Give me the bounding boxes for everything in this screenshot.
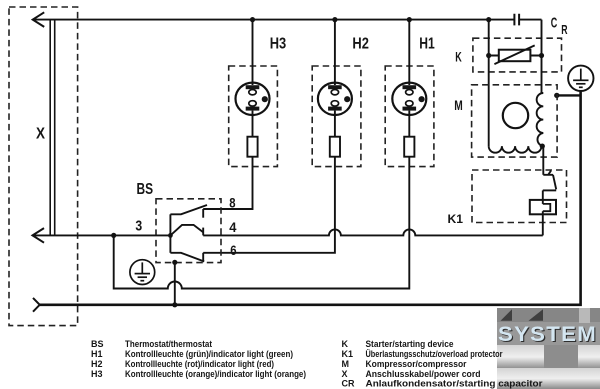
- svg-text:Kontrollleuchte (grün)/indicat: Kontrollleuchte (grün)/indicator light (…: [125, 349, 293, 359]
- svg-text:SYSTEM: SYSTEM: [498, 323, 597, 346]
- wire H1 down and left to live node with hop over earth branch: [114, 157, 410, 289]
- svg-text:Kontrollleuchte (rot)/indicato: Kontrollleuchte (rot)/indicator light (r…: [125, 359, 274, 369]
- resistor H3: [247, 137, 257, 157]
- legend M row: [342, 359, 467, 369]
- lamp H2: [318, 20, 352, 137]
- node dot starter left: [486, 53, 491, 58]
- label M: [454, 97, 463, 113]
- svg-text:M: M: [454, 97, 463, 113]
- label 8: [229, 196, 236, 211]
- svg-text:K1: K1: [448, 212, 464, 226]
- svg-text:4: 4: [229, 220, 237, 235]
- node junction dot H3 on rail: [250, 17, 255, 22]
- starter PTC element K: [494, 45, 534, 64]
- label K: [455, 49, 462, 65]
- svg-text:8: 8: [229, 196, 236, 211]
- wire winding junction down to overload: [542, 146, 544, 175]
- resistor H2: [330, 137, 340, 157]
- thermostat terminal 8 stub: [202, 209, 204, 218]
- legend H3 row: [91, 369, 306, 379]
- legend CR row: [342, 379, 544, 389]
- svg-text:Anschlusskabel/power cord: Anschlusskabel/power cord: [366, 369, 481, 379]
- wire 3 live input: [32, 234, 170, 236]
- thermostat BS blade to 6: [170, 253, 204, 262]
- node dot on motor frame: [554, 93, 559, 98]
- svg-text:K: K: [342, 339, 349, 349]
- wire H2 down to thermostat terminal 6: [203, 157, 335, 253]
- motor rotor circle: [503, 103, 528, 128]
- svg-text:3: 3: [135, 217, 142, 234]
- label X: [36, 125, 45, 142]
- svg-text:BS: BS: [91, 339, 104, 349]
- lamp H1: [392, 20, 426, 137]
- wire 4 to overload with hops over H2 and H1: [203, 229, 543, 235]
- svg-text:K1: K1: [342, 349, 354, 359]
- svg-text:H2: H2: [91, 359, 103, 369]
- svg-text:Starter/starting device: Starter/starting device: [366, 339, 454, 349]
- arrow left end of wire 3: [33, 228, 45, 243]
- label 6: [230, 243, 237, 258]
- legend H1 row: [91, 349, 293, 359]
- svg-text:C: C: [551, 14, 558, 31]
- main winding coil: [489, 146, 542, 153]
- wire earth tap to motor frame: [557, 94, 581, 96]
- protective earth symbol at thermostat: [130, 260, 155, 285]
- indicator light H1 dashed box: [385, 66, 434, 167]
- wire K left branch down to motor: [488, 20, 490, 147]
- wire blade to heater: [542, 190, 544, 204]
- node dot earth branch on bottom wire: [172, 302, 177, 307]
- indicator light H2 dashed box: [312, 66, 361, 167]
- label BS: [137, 181, 154, 198]
- svg-text:H1: H1: [419, 35, 435, 52]
- node dot starter right: [539, 53, 544, 58]
- thermostat BS blade to 8: [170, 205, 207, 214]
- legend K row: [342, 339, 454, 349]
- label 3: [135, 217, 142, 234]
- svg-text:Anlaufkondensator/starting cap: Anlaufkondensator/starting capacitor: [366, 379, 544, 389]
- overload contact tick: [543, 171, 553, 175]
- arrow left end of top rail: [33, 12, 45, 27]
- svg-text:X: X: [36, 125, 45, 142]
- watermark SYSTEM logo: [497, 308, 600, 389]
- thermostat terminal 6 stub: [202, 253, 204, 261]
- wire capacitor right down to start winding: [541, 20, 543, 93]
- svg-text:H3: H3: [91, 369, 103, 379]
- svg-text:H1: H1: [91, 349, 103, 359]
- node junction dot live branch: [111, 233, 116, 238]
- overload heater outer: [530, 200, 556, 214]
- svg-text:H3: H3: [270, 35, 287, 52]
- node junction dot H1 on rail: [407, 17, 412, 22]
- compressor M dashed box: [472, 85, 557, 157]
- svg-text:Kontrollleuchte (orange)/indic: Kontrollleuchte (orange)/indicator light…: [125, 369, 306, 379]
- svg-text:Kompressor/compressor: Kompressor/compressor: [366, 359, 467, 369]
- legend text: [91, 339, 543, 389]
- label C: [551, 14, 558, 31]
- wire heater down to wire 4: [542, 211, 544, 235]
- legend X row: [342, 369, 481, 379]
- svg-text:Thermostat/thermostat: Thermostat/thermostat: [125, 339, 212, 349]
- arrow at left end of earth wire: [33, 298, 40, 312]
- svg-text:R: R: [561, 22, 568, 37]
- svg-text:BS: BS: [137, 181, 154, 198]
- node junction dot H2 on rail: [332, 17, 337, 22]
- node junction dot K branch on rail: [486, 17, 491, 22]
- svg-text:X: X: [342, 369, 348, 379]
- label H3: [270, 35, 287, 52]
- svg-text:H2: H2: [352, 35, 369, 52]
- legend BS row: [91, 339, 212, 349]
- thermostat BS pole: [168, 214, 173, 253]
- wire starter row: [489, 55, 542, 57]
- start winding coil: [537, 93, 544, 146]
- lamp H3: [236, 20, 270, 137]
- wire cable X double line: [50, 20, 55, 235]
- wire H3 to thermostat terminal 8: [203, 157, 252, 209]
- resistor H1: [404, 137, 414, 157]
- svg-text:Überlastungsschutz/overload pr: Überlastungsschutz/overload protector: [366, 349, 503, 359]
- starter K dashed box: [473, 38, 562, 72]
- node dot thermostat body earth: [172, 260, 177, 265]
- indicator light H3 dashed box: [229, 66, 278, 167]
- overload lever: [543, 189, 556, 191]
- overload switch blade: [553, 175, 556, 190]
- wire top supply rail: [33, 19, 542, 21]
- legend H2 row: [91, 359, 274, 369]
- overload heater inner flag: [543, 204, 551, 211]
- capacitor CR: [514, 14, 519, 26]
- overload protector K1 dashed box: [472, 170, 567, 223]
- node dot winding junction: [540, 144, 545, 149]
- label 4: [229, 220, 237, 235]
- svg-text:CR: CR: [342, 379, 355, 389]
- svg-text:6: 6: [230, 243, 237, 258]
- label R subscript: [561, 22, 568, 37]
- thermostat BS dashed box: [156, 199, 221, 263]
- svg-text:K: K: [455, 49, 462, 65]
- protective earth symbol at compressor: [568, 66, 593, 91]
- wire earth branch from thermostat body: [174, 262, 176, 305]
- label H1: [419, 35, 435, 52]
- legend K1 row: [342, 349, 503, 359]
- label K1: [448, 212, 464, 226]
- power cord X dashed box: [9, 7, 78, 326]
- thermostat BS blade to 4: [170, 225, 203, 236]
- label H2: [352, 35, 369, 52]
- svg-text:M: M: [342, 359, 350, 369]
- thermostat terminal 4 stub: [202, 228, 204, 236]
- wire bottom protective earth run: [40, 91, 581, 304]
